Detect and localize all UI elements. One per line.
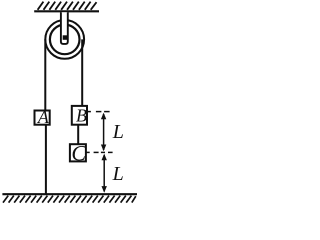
dashed line at C level [86,151,113,153]
ceiling hatching [38,2,97,10]
rope A to ground [45,125,47,195]
ground line [2,193,137,195]
left rope pulley to A [44,39,46,110]
svg-text:B: B [76,106,87,126]
svg-text:L: L [112,121,124,143]
right rope pulley to B [81,39,83,105]
rope B to C [77,124,79,144]
lower arrow C to ground [103,155,105,192]
upper arrow head bottom [101,145,106,152]
svg-text:L: L [112,163,124,185]
ground hatching [3,196,136,203]
upper arrow B to C [103,114,105,150]
dashed line at B level [87,111,109,113]
block C [70,144,86,161]
svg-text:C: C [71,141,86,166]
lower arrow head top [102,154,107,161]
block A [35,111,50,125]
lower arrow head bottom [102,186,107,193]
upper arrow head top [101,113,106,120]
pulley axle [63,35,67,40]
pulley bracket [61,12,68,44]
pulley outer circle [45,20,84,59]
ceiling line [34,10,99,12]
pulley rim circle [50,25,80,55]
svg-text:A: A [37,107,50,127]
block B [72,106,87,125]
